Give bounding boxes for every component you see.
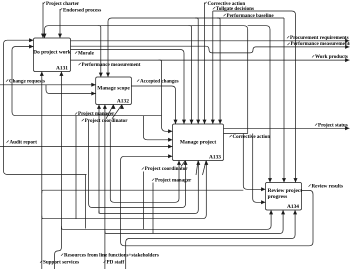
label Review results [309,183,343,189]
svg-text:Performance baseline: Performance baseline [227,13,275,19]
label Change requests [6,78,45,84]
wire output Morale [71,50,187,125]
wire mech Resources [55,72,64,269]
label Project coordinator A133 [142,166,189,172]
svg-text:Project charter: Project charter [46,1,80,7]
wire Performance baseline to A134 [282,18,286,183]
wire corrective to A134 left [243,134,265,192]
wire A133 L2 feed [143,116,172,142]
svg-text:Manage scope: Manage scope [97,86,130,92]
label Performance baseline [224,13,275,19]
wire output Corrective action A133 [224,133,248,135]
wire A133 label riser a [142,172,144,230]
wire mech Support services [40,72,44,269]
label Morale [75,50,95,56]
svg-text:A134: A134 [287,204,299,210]
svg-text:Do project work: Do project work [33,50,71,56]
svg-text:A131: A131 [56,66,68,72]
wire accepted changes to A131 feedback [12,45,162,116]
label Resources from line functions+stakeholders [61,252,159,258]
label Tollgate decisions [213,6,254,12]
svg-text:Work products: Work products [315,54,348,60]
wire mech arrow A134 B3 [126,210,297,269]
wire A132 mech arrow1 [97,105,101,214]
activity box A132 Manage scope [96,77,132,105]
wire control Performance baseline left branch [106,18,284,77]
label Support services [40,259,79,265]
label Project coordinator A132 [82,118,129,124]
svg-text:progress: progress [268,194,288,200]
wire riser x76 [75,115,77,219]
svg-text:Accepted changes: Accepted changes [140,78,179,84]
wire corrective feedback bus [43,26,248,134]
label Project manager A132 [75,111,115,117]
wire A133 mech diag2 [196,161,198,175]
svg-text:Corrective action: Corrective action [233,134,271,140]
label Project status [315,122,348,128]
wire control Project charter [41,3,45,39]
wire Tollgate decisions to A134 [213,11,298,183]
wire vert x85.5 drop [85,175,87,229]
svg-text:Review results: Review results [312,183,343,189]
svg-text:Manage project: Manage project [180,140,216,146]
activity box A134 Review project progress [266,183,303,211]
wire A132 mech arrow3 [106,105,116,119]
svg-text:Resources from line functions+: Resources from line functions+stakeholde… [64,252,159,258]
label Audit report [7,139,38,145]
wire output Accepted changes [131,86,177,124]
wire control Corrective action label [203,3,207,125]
svg-text:Support services: Support services [43,259,79,265]
wire change requests branch [46,85,96,96]
wire corrective bus to A134 [248,26,272,183]
wire output Work products / Performance measurement [71,58,350,62]
svg-text:Audit report: Audit report [10,139,38,145]
wire A133 mech diag1 [181,161,185,167]
svg-text:A132: A132 [117,99,129,105]
wire A133 mech diag3 [203,161,207,175]
svg-text:Performance measurement: Performance measurement [82,62,141,68]
activity box A133 Manage project [173,124,224,161]
wire A132 mech arrow4 [112,105,124,119]
svg-text:Project coordinator: Project coordinator [145,166,189,172]
svg-text:Morale: Morale [78,50,95,56]
wire output Review results feedback [121,154,313,246]
svg-text:A133: A133 [209,155,221,161]
wire output Performance measurements [71,45,350,53]
wire output Procurement requirements [71,39,350,43]
svg-text:Project manager: Project manager [155,177,192,183]
wire output Project status [224,126,350,130]
label Procurement requirements [287,35,349,41]
wire control Tollgate decisions [211,11,215,124]
activity box A131 Do project work [33,38,71,72]
wire feedback to A131 L1 [4,38,87,174]
wire input Audit report [0,145,173,149]
svg-text:Endorsed process: Endorsed process [63,7,101,13]
label Corrective action out [230,134,271,140]
wire Performance baseline to A133 a [195,18,200,124]
wire pd fork to A134 B2 [105,210,285,234]
wire bus B to A133 B1 [89,122,188,208]
wire mech PD staff [103,105,107,269]
wire support fork busD [42,161,209,219]
wire A133 label riser b [152,183,154,234]
label Accepted changes [137,78,179,84]
svg-text:Project coordinator: Project coordinator [85,118,129,124]
label Performance measurements [288,41,350,47]
wire resources fork to A134 B1 [61,210,273,229]
wire performance measurement branch to A133 [159,60,173,133]
label Performance measurement [79,62,141,68]
wire corrective bus to A133 [189,26,194,124]
label Project manager A133 [152,177,192,183]
svg-text:Tollgate decisions: Tollgate decisions [216,6,254,12]
label Project charter [43,1,80,7]
wire input Change requests [0,83,96,87]
wire long feedback y189 [42,190,244,193]
wire bus x110 to A133 bottom [110,122,181,202]
wire corrective drop to A134 L2 [253,134,266,205]
wire corrective bus to A132 [98,26,103,77]
svg-text:Change requests: Change requests [9,78,45,84]
label Work products [312,54,348,60]
svg-text:Performance measurements: Performance measurements [291,41,350,47]
wire Performance baseline to A133 b [217,18,222,124]
wire control Endorsed process [58,9,62,38]
label PD staff [104,259,125,265]
svg-text:Project manager: Project manager [78,111,115,117]
svg-text:PD staff: PD staff [107,259,125,265]
label Corrective action [205,1,246,7]
svg-text:Project status: Project status [318,122,348,128]
wire bus C to A133 B2 [99,161,200,214]
label Endorsed process [60,7,101,13]
